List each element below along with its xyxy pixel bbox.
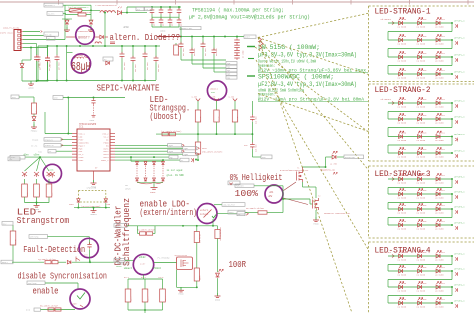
- svg-text:IC1: IC1: [79, 126, 84, 129]
- dim net label box: [235, 184, 254, 188]
- svg-text:C011: C011: [440, 189, 446, 192]
- sync wire 2: [115, 159, 180, 161]
- LED strang2 row2 L2: [418, 117, 422, 121]
- ground sense: [34, 203, 40, 211]
- svg-text:LW 515G: LW 515G: [398, 274, 407, 277]
- svg-text:0% Helligkeit: 0% Helligkeit: [230, 172, 283, 183]
- svg-text:uSen: uSen: [23, 154, 29, 157]
- wire outputcap 1 to label: [192, 63, 226, 65]
- mosfet gnd: [178, 287, 184, 295]
- LED strang1 row2 L2: [418, 38, 422, 42]
- svg-text:uRD=DRCTCL-NN: uRD=DRCTCL-NN: [320, 169, 335, 172]
- svg-text:u-MBRS340T3-u: u-MBRS340T3-u: [78, 31, 90, 33]
- LED strang1 row4 L2: [418, 72, 422, 76]
- frame tick 1: [58, 0, 60, 5]
- sepic cap branch 2: [132, 46, 134, 57]
- legend dash 2: [247, 75, 255, 77]
- svg-text:LW 515G: LW 515G: [398, 182, 407, 185]
- IC pin1 feed wire: [44, 112, 46, 134]
- LED strang3 row2 L1: [399, 192, 403, 196]
- sync wire 1: [115, 156, 169, 158]
- col B gnd: [215, 293, 221, 301]
- gate wire to M2: [283, 198, 310, 200]
- annotation circle dim: [265, 185, 283, 203]
- sense resistor R10: [24, 179, 26, 184]
- strang3 row1 output label: [451, 178, 453, 180]
- net label u5V: [53, 96, 63, 100]
- net label SOUT: [114, 224, 127, 228]
- svg-text:CONN-PV-01X04: CONN-PV-01X04: [3, 27, 20, 30]
- strang3 row3 output label: [451, 208, 453, 210]
- inductor L1: [100, 11, 115, 13]
- svg-text:SQ03: SQ03: [169, 151, 173, 153]
- svg-text:u.0R: u.0R: [192, 96, 198, 99]
- LDO wires right: [214, 204, 222, 206]
- svg-text:Schaltfrequenz: Schaltfrequenz: [121, 198, 132, 266]
- strang4 row4 wire: [388, 302, 452, 304]
- IC U1 right pin 7: [110, 150, 115, 152]
- svg-text:HB-10R/5.1k/NOP: HB-10R/5.1k/NOP: [40, 305, 59, 308]
- net label OUT05: [344, 155, 364, 159]
- output capacitor C30: [180, 37, 182, 45]
- IC U1 right pin 4: [110, 141, 115, 143]
- svg-text:extern: extern: [200, 209, 209, 212]
- svg-text:SEPIC-VARIANTE: SEPIC-VARIANTE: [97, 83, 160, 94]
- svg-text:uF/uF1-x: uF/uF1-x: [454, 37, 465, 40]
- svg-text:u3V3: u3V3: [89, 119, 95, 122]
- svg-text:uF/uF2-x: uF/uF2-x: [454, 116, 465, 119]
- svg-text:RST-GB: RST-GB: [45, 34, 52, 36]
- pwm m1 drain lead: [302, 167, 304, 170]
- svg-text:C011: C011: [440, 282, 446, 285]
- svg-text:C010: C010: [422, 251, 428, 254]
- jumper diode top 2: [144, 162, 147, 165]
- dim wire: [254, 185, 283, 187]
- svg-text:SQT2222A-NP: SQT2222A-NP: [175, 254, 188, 257]
- net label CMP: [29, 235, 48, 239]
- annotation circle uboost: [207, 81, 226, 100]
- svg-text:R-NN-NN/GRN-PRACTICAL-TUT: R-NN-NN/GRN-PRACTICAL-TUT: [280, 169, 309, 172]
- strang4 return wire 1: [451, 256, 453, 265]
- annotation circle boost diode: [76, 26, 95, 45]
- wire L1 to D1: [114, 12, 117, 14]
- svg-text:4u7 50V: 4u7 50V: [216, 48, 218, 56]
- output capacitor C33: [213, 37, 215, 51]
- indicator gnd: [90, 208, 97, 216]
- svg-text:C010: C010: [422, 266, 428, 269]
- wire outputcap 2 to label: [203, 67, 226, 69]
- callout dashed line steep exit bottom: [258, 38, 352, 313]
- diode D2 input: [20, 64, 24, 68]
- svg-text:uF/uF2-x: uF/uF2-x: [454, 150, 465, 153]
- svg-text:u50kHz: u50kHz: [153, 267, 162, 270]
- svg-text:uF-10R/5.1k/NOP: uF-10R/5.1k/NOP: [246, 207, 265, 210]
- branch2 wire down: [216, 122, 218, 134]
- svg-text:LDO-SEL/EXT: LDO-SEL/EXT: [223, 205, 236, 207]
- frame tick 8: [467, 0, 469, 5]
- svg-text:uF/uF2-x: uF/uF2-x: [454, 133, 465, 136]
- capacitor C22 bottom: [169, 14, 171, 19]
- ground PGND2: [31, 124, 38, 132]
- svg-text:LW 515G: LW 515G: [417, 212, 426, 215]
- sense fan wires: [25, 157, 50, 171]
- branch1 wire down: [197, 122, 199, 142]
- svg-text:uPWM: uPWM: [125, 188, 131, 191]
- strang1 row2 output label: [451, 39, 453, 41]
- svg-text:uPWM-LED: uPWM-LED: [87, 186, 97, 189]
- wire from X1 pin1 to box: [23, 31, 40, 33]
- net label FSO: [114, 259, 125, 263]
- LED strang2 row1 L3: [436, 101, 440, 105]
- fault wire right: [90, 261, 118, 263]
- svg-text:uWoact: uWoact: [124, 267, 133, 270]
- svg-text:uR=DRCTCL PRACTICAL-TUT: uR=DRCTCL PRACTICAL-TUT: [324, 212, 351, 215]
- sense resistor R12: [48, 179, 50, 184]
- svg-text:(Uboost): (Uboost): [150, 111, 183, 122]
- strang2 row1 output label: [451, 102, 453, 104]
- comp resistor pair: [140, 232, 146, 235]
- net label LDO1: [222, 203, 245, 207]
- IC U1 left pin 2: [72, 135, 77, 137]
- svg-text:uF/uF1-x: uF/uF1-x: [454, 54, 465, 57]
- indicator dashed box: [78, 191, 105, 202]
- resistor branch 1: [197, 101, 199, 110]
- svg-text:100R: 100R: [229, 259, 247, 270]
- jumper diode top 1: [136, 162, 139, 165]
- strang4 row2 wire: [388, 270, 452, 272]
- mosfet loop left: [176, 270, 178, 288]
- strang3 return wire 3: [451, 209, 453, 218]
- svg-text:10k: 10k: [36, 111, 38, 114]
- strang2 return wire 3: [451, 137, 453, 146]
- strang3 row4 wire: [388, 224, 452, 226]
- capacitor C10 top: [151, 7, 153, 9]
- svg-text:enable: enable: [33, 286, 59, 297]
- callout dashed line shallow to LED-STRANG-1 low: [258, 38, 369, 75]
- svg-text:LW 515G ( 100mW;: LW 515G ( 100mW;: [258, 44, 320, 51]
- LED strang2 row4 L3: [436, 151, 440, 155]
- sync pin mark: [191, 158, 194, 162]
- svg-text:STACK-TX: STACK-TX: [45, 144, 55, 147]
- net label S1: [169, 155, 178, 159]
- strang1 return wire 3: [451, 57, 453, 66]
- svg-text:uOUT: uOUT: [245, 36, 251, 39]
- svg-text:L4 705: L4 705: [330, 163, 338, 166]
- svg-text:LW 515G: LW 515G: [398, 290, 407, 293]
- IC U1 left pin 5: [72, 144, 77, 146]
- svg-text:(extern/intern): (extern/intern): [140, 207, 198, 218]
- svg-text:LW 515G: LW 515G: [435, 212, 444, 215]
- svg-text:Strangstrom: Strangstrom: [17, 215, 70, 226]
- svg-text:LW 515G: LW 515G: [435, 139, 444, 142]
- sepic top rail: [38, 45, 160, 47]
- svg-text:AGND: AGND: [28, 86, 34, 89]
- cmp wire right: [48, 236, 90, 238]
- svg-text:C010: C010: [422, 174, 428, 177]
- svg-text:SOUT/C: SOUT/C: [115, 224, 123, 227]
- wire X1 pin3 main: [23, 39, 65, 41]
- jumper diode bottom 2: [144, 178, 147, 181]
- svg-text:2u2 50V: 2u2 50V: [135, 64, 137, 72]
- fault wire row: [1, 260, 13, 264]
- LED strang2 row1 L2: [418, 101, 422, 105]
- jumper diode bottom 3: [153, 178, 156, 181]
- gray box pct: [228, 181, 240, 185]
- boost bypass red wire left: [66, 36, 76, 38]
- svg-text:4u7 50V: 4u7 50V: [40, 62, 42, 70]
- IC U1 right pin 5: [110, 144, 115, 146]
- 68uH coil symbol: [75, 57, 89, 59]
- svg-text:CMP/SYNC: CMP/SYNC: [28, 283, 37, 285]
- col B led: [216, 273, 220, 277]
- svg-text:uh-mount: uh-mount: [381, 174, 392, 177]
- callout dashed line legend SFS: [258, 94, 369, 132]
- pwm feed cap 2: [250, 142, 255, 149]
- svg-text:SDAL_2: SDAL_2: [101, 159, 109, 162]
- IC U1 TPS61194PWPR: [77, 129, 110, 171]
- svg-text:C011: C011: [440, 69, 446, 72]
- svg-text:LW 515G: LW 515G: [398, 60, 407, 63]
- series resistor pair mid: [162, 132, 168, 135]
- bottom rail sepic: [36, 80, 156, 82]
- col B resistor: [215, 230, 220, 239]
- LED strang2 row1 L1: [399, 101, 403, 105]
- LED strang1 row1 L1: [399, 21, 403, 25]
- svg-text:C011: C011: [440, 204, 446, 207]
- svg-text:C010: C010: [422, 189, 428, 192]
- LED strang4 row4 L2: [418, 301, 422, 305]
- svg-text:LW 515G: LW 515G: [435, 26, 444, 29]
- wire bank1 to rail2: [180, 27, 182, 37]
- freq wires split: [143, 275, 145, 279]
- freq bottom rail: [128, 309, 163, 311]
- svg-text:C011: C011: [440, 35, 446, 38]
- svg-text:uBOOST-NET: uBOOST-NET: [181, 27, 193, 30]
- strang2 return wire 1: [451, 103, 453, 112]
- svg-text:uF/uF4-x: uF/uF4-x: [454, 253, 465, 256]
- sepic cap branch 1: [121, 46, 123, 53]
- mosfet left wire: [154, 262, 177, 264]
- IC U1 right pin 9: [110, 156, 115, 158]
- LED strang2 row4 L2: [418, 151, 422, 155]
- svg-text:C010: C010: [422, 131, 428, 134]
- strang2 row4 output label: [451, 152, 453, 154]
- jumper diode top 4: [162, 162, 165, 165]
- svg-text:LW 515G: LW 515G: [398, 228, 407, 231]
- sense resistor R11: [36, 179, 38, 184]
- svg-text:LW 515G: LW 515G: [417, 259, 426, 262]
- sepic cap branch 3: [144, 46, 146, 53]
- annotation circle freq: [133, 254, 153, 274]
- svg-text:C011: C011: [440, 220, 446, 223]
- strang4 return wire 2: [451, 271, 453, 280]
- svg-text:SQ4: SQ4: [227, 77, 230, 79]
- cmp wire through circle: [89, 249, 91, 262]
- svg-text:uGND: uGND: [215, 298, 221, 301]
- svg-text:uF/uF3-x: uF/uF3-x: [454, 176, 465, 179]
- left cap bank branch 3: [56, 46, 58, 55]
- mosfet bottom rail: [177, 286, 197, 288]
- svg-text:uh-mount: uh-mount: [381, 18, 392, 21]
- svg-text:u0R?: u0R?: [72, 303, 78, 306]
- resistor branch 3: [234, 101, 236, 110]
- wire X1 pin2: [23, 35, 44, 37]
- svg-text:uPWM: uPWM: [116, 265, 122, 268]
- LED strang1 row4 L1: [399, 72, 403, 76]
- svg-text:uF/uF4-x: uF/uF4-x: [454, 284, 465, 287]
- svg-text:uh-mount: uh-mount: [381, 98, 392, 101]
- svg-text:SQ01: SQ01: [169, 145, 173, 147]
- svg-text:LED-STRANG-2: LED-STRANG-2: [375, 85, 431, 95]
- net label pwm feed: [261, 155, 272, 159]
- svg-text:LW 515G: LW 515G: [435, 197, 444, 200]
- svg-text:C010: C010: [422, 35, 428, 38]
- mosfet block Q1: [177, 257, 193, 270]
- capacitor C2: [45, 56, 50, 63]
- svg-text:LW 515G: LW 515G: [435, 77, 444, 80]
- svg-text:uGND2: uGND2: [90, 213, 97, 216]
- sepic diode D5: [103, 57, 113, 61]
- strang1 row1 output label: [451, 22, 453, 24]
- IC U1 left pin 3: [72, 138, 77, 140]
- fan origin net arrows: [258, 37, 263, 50]
- LED-STRANG-3 dashed box: [369, 166, 474, 238]
- svg-text:LW 515G: LW 515G: [435, 106, 444, 109]
- svg-text:BOOST?: BOOST?: [78, 36, 90, 40]
- svg-text:SU-ETC: SU-ETC: [48, 14, 54, 16]
- svg-text:u25m: u25m: [48, 169, 54, 172]
- svg-text:4u7 50V: 4u7 50V: [183, 48, 185, 56]
- freq box wire: [125, 259, 134, 261]
- LED strang4 row1 L3: [436, 254, 440, 258]
- fault transistor mark: [76, 257, 80, 262]
- net label FAULT right: [118, 260, 129, 264]
- svg-text:C010: C010: [422, 69, 428, 72]
- cluster gnd symbol: [151, 187, 158, 189]
- wire branch1 bottom join: [195, 159, 197, 161]
- strang3 row2 wire: [388, 193, 452, 195]
- strang3 return wire 1: [451, 179, 453, 188]
- frame tick 2: [116, 0, 118, 5]
- wire u5V: [63, 97, 125, 99]
- strang2 row4 wire: [388, 152, 452, 154]
- frame tick 5: [292, 0, 294, 5]
- svg-text:u3kHz: u3kHz: [139, 256, 147, 259]
- svg-text:C011: C011: [440, 266, 446, 269]
- LDO drop wire: [212, 219, 214, 226]
- IC U1 bottom pin: [93, 171, 95, 180]
- IC U1 left pin 7: [72, 150, 77, 152]
- boost bypass red wire right: [95, 36, 100, 38]
- LDO pin mark: [246, 212, 248, 215]
- svg-text:PGND2: PGND2: [31, 129, 38, 132]
- svg-text:2u2 50V: 2u2 50V: [158, 64, 160, 72]
- LED strang3 row3 L3: [436, 207, 440, 211]
- LED strang1 row4 L3: [436, 72, 440, 76]
- wire D1 to input caps: [122, 12, 147, 14]
- ground TVS left: [64, 27, 70, 32]
- svg-text:SFS1100WADC ( 100mW;: SFS1100WADC ( 100mW;: [258, 74, 334, 81]
- IC U1 right pin 3: [110, 138, 115, 140]
- svg-text:68µH: 68µH: [71, 61, 91, 74]
- svg-text:SQ04: SQ04: [184, 154, 188, 156]
- right col A wire top: [196, 226, 198, 232]
- SEPIC branch wire down: [104, 13, 106, 46]
- svg-text:HB-10R/5.1k/NOP: HB-10R/5.1k/NOP: [137, 228, 156, 231]
- strang1 return wire 2: [451, 40, 453, 49]
- left cap bank branch 1: [37, 46, 39, 55]
- svg-text:FS-1: FS-1: [124, 276, 130, 279]
- net label stack right of caps: [226, 62, 237, 65]
- svg-text:SQ1: SQ1: [227, 67, 230, 69]
- output capacitor C31: [191, 37, 193, 51]
- jumper diode bottom 4: [162, 178, 165, 181]
- svg-text:LW 515G: LW 515G: [417, 43, 426, 46]
- cluster bottom bus: [137, 182, 163, 184]
- svg-text:LW 515G: LW 515G: [398, 43, 407, 46]
- zener D6: [33, 114, 35, 116]
- pwm feed vertical: [251, 101, 253, 115]
- annotation pointer lines: [284, 182, 297, 191]
- LED strang1 row1 L2: [418, 21, 422, 25]
- svg-text:(x): (x): [26, 309, 30, 312]
- callout dashed line legend LW: [255, 47, 369, 132]
- strang4 row3 wire: [388, 286, 452, 288]
- svg-text:glei. Ri NND: glei. Ri NND: [167, 174, 185, 177]
- IC left FSET wire: [25, 156, 72, 158]
- ground TVS right: [88, 27, 94, 32]
- svg-text:LW 515G: LW 515G: [435, 306, 444, 309]
- svg-text:LW 515G: LW 515G: [417, 197, 426, 200]
- svg-text:LW 515G: LW 515G: [398, 26, 407, 29]
- IC U1 left pin 4: [72, 141, 77, 143]
- strang1 row4 output label: [451, 73, 453, 75]
- svg-text:4u7 50V: 4u7 50V: [205, 48, 207, 56]
- svg-text:LW 515G: LW 515G: [417, 60, 426, 63]
- fuse F1: [69, 9, 82, 12]
- svg-text:SQ3: SQ3: [227, 74, 230, 76]
- svg-text:uF/uF3-x: uF/uF3-x: [454, 191, 465, 194]
- svg-text:u-BOURNS: u-BOURNS: [75, 55, 84, 57]
- svg-text:LW 515G: LW 515G: [435, 43, 444, 46]
- svg-text:LW 515G: LW 515G: [435, 60, 444, 63]
- col A resistor 2: [194, 268, 199, 281]
- wire outputcap 0 to label: [181, 59, 226, 61]
- diode D1: [117, 11, 121, 15]
- svg-text:C010: C010: [422, 52, 428, 55]
- strang2 row2 wire: [388, 118, 452, 120]
- LED strang2 row3 L3: [436, 135, 440, 139]
- strike line on annotation: [157, 36, 181, 38]
- svg-text:LW 515G: LW 515G: [417, 228, 426, 231]
- LED strang4 row3 L1: [399, 285, 403, 289]
- svg-text:C010: C010: [422, 220, 428, 223]
- LED strang3 row4 L3: [436, 223, 440, 227]
- svg-text:uSen: uSen: [34, 154, 40, 157]
- capacitor C11 top: [160, 7, 162, 9]
- net label LDO2: [237, 212, 245, 216]
- LED strang1 row3 L1: [399, 55, 403, 59]
- sepic right resistor: [175, 43, 177, 45]
- frame tick 7: [409, 0, 411, 5]
- LED strang4 row4 L1: [399, 301, 403, 305]
- svg-text:(ur-10R/5.1k/NOP): (ur-10R/5.1k/NOP): [161, 130, 181, 133]
- svg-text:u47 50V: u47 50V: [147, 62, 149, 70]
- svg-text:4u7 50V: 4u7 50V: [59, 62, 61, 70]
- svg-text:1n?: 1n?: [84, 254, 89, 257]
- svg-text:C011: C011: [440, 251, 446, 254]
- IC U1 right pin 10: [110, 159, 115, 161]
